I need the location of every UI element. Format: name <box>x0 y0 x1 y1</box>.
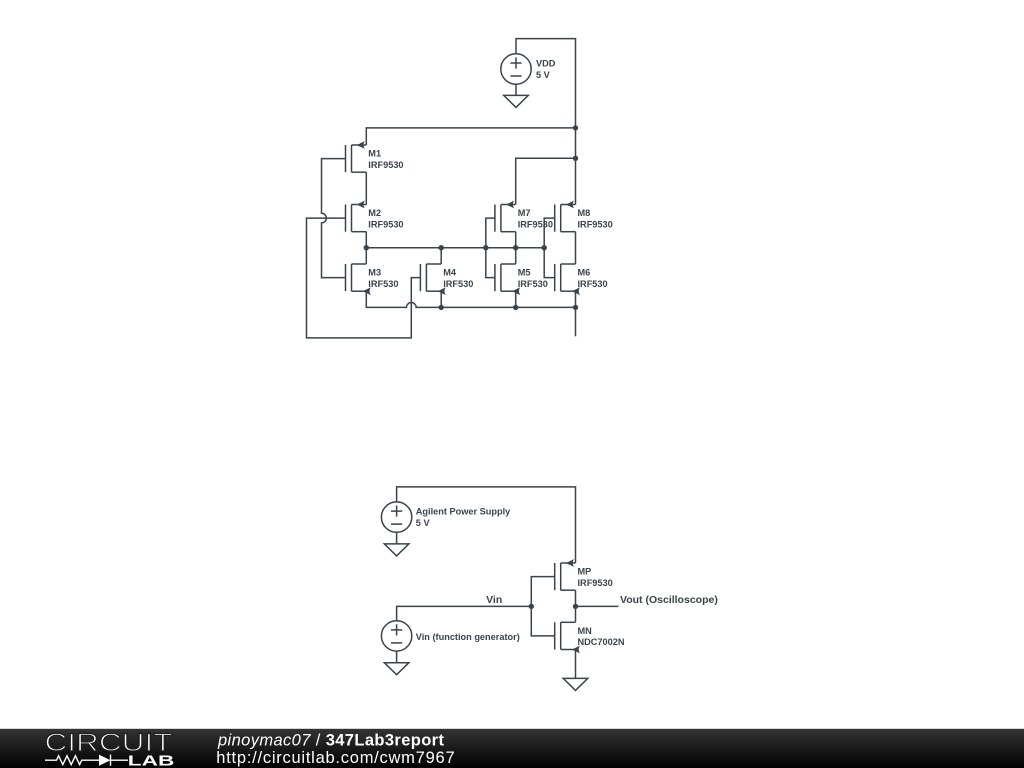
svg-text:Agilent Power Supply: Agilent Power Supply <box>416 507 511 517</box>
wire M2 source to M3 drain <box>365 232 367 264</box>
voltage source VDD <box>501 54 531 96</box>
wire Vout rail <box>576 605 619 607</box>
svg-text:5 V: 5 V <box>416 518 431 528</box>
label M8 IRF9530 <box>578 208 613 229</box>
label M5 IRF530 <box>518 267 548 288</box>
label MN NDC7002N <box>578 626 625 647</box>
label M7 IRF9530 <box>518 208 553 229</box>
svg-text:IRF530: IRF530 <box>578 279 608 289</box>
node junction top rail <box>573 125 578 130</box>
wire M7 M5 gate net <box>486 218 495 278</box>
node mid rail at M7 source <box>513 245 518 250</box>
svg-text:IRF9530: IRF9530 <box>578 219 613 229</box>
svg-text:http://circuitlab.com/cwm7967: http://circuitlab.com/cwm7967 <box>216 749 455 767</box>
label M2 IRF9530 <box>368 208 403 229</box>
svg-text:pinoymac07 / 347Lab3report: pinoymac07 / 347Lab3report <box>217 732 444 750</box>
wire M4 drain lead <box>440 248 442 264</box>
svg-text:Vin: Vin <box>486 594 502 606</box>
svg-text:NDC7002N: NDC7002N <box>578 637 625 647</box>
transistor M1 <box>346 141 367 172</box>
wire M8 source to M6 drain <box>575 232 577 264</box>
wire M1 gate to M3 gate with hop <box>322 159 346 278</box>
wire VDD vertical to M8 drain <box>575 128 577 205</box>
svg-text:M5: M5 <box>518 267 531 277</box>
transistor M2 <box>346 201 367 232</box>
wire Vin rail <box>397 606 532 620</box>
svg-text:5 V: 5 V <box>536 70 551 80</box>
svg-text:IRF9530: IRF9530 <box>518 219 553 229</box>
wire VDD top loop <box>516 39 576 128</box>
label M4 IRF530 <box>443 267 473 288</box>
transistor MP <box>555 559 576 590</box>
node Vin gate junction <box>529 604 534 609</box>
wire M8 M6 gate net <box>544 218 555 278</box>
node mid rail at M8 M6 gate net <box>542 245 547 250</box>
node mid rail at M3 <box>364 245 369 250</box>
transistor M4 <box>420 264 445 295</box>
node bottom rail at M5 <box>513 305 518 310</box>
svg-text:Vin (function generator): Vin (function generator) <box>416 632 520 642</box>
node junction M7 branch <box>573 156 578 161</box>
svg-text:IRF530: IRF530 <box>368 279 398 289</box>
svg-text:IRF9530: IRF9530 <box>368 219 403 229</box>
transistor M8 <box>555 201 576 232</box>
svg-text:IRF530: IRF530 <box>518 279 548 289</box>
svg-text:VDD: VDD <box>536 59 556 69</box>
label M6 IRF530 <box>578 267 608 288</box>
wire bottom rail with hop <box>366 291 575 307</box>
wire M7 drain branch <box>516 158 576 204</box>
wire MP MN gate net <box>531 577 554 636</box>
transistor M6 <box>555 264 580 295</box>
wire lower top loop <box>397 487 576 563</box>
svg-text:M4: M4 <box>443 267 457 277</box>
svg-text:M8: M8 <box>578 208 591 218</box>
wire top rail <box>366 128 575 145</box>
wire M4 source lead <box>440 291 442 307</box>
label VDD 5 V <box>536 59 556 80</box>
transistor M5 <box>495 264 520 295</box>
wire M7 source to M5 drain <box>515 232 517 264</box>
svg-text:IRF530: IRF530 <box>443 279 473 289</box>
label M3 IRF530 <box>368 267 398 288</box>
node bottom rail at M6 <box>573 305 578 310</box>
node bottom rail at M4 <box>439 305 444 310</box>
svg-text:Vout (Oscilloscope): Vout (Oscilloscope) <box>620 594 718 606</box>
ground below MN <box>563 678 588 690</box>
svg-text:M3: M3 <box>368 267 381 277</box>
wire M2 gate to M4 gate <box>307 218 421 338</box>
svg-text:M1: M1 <box>368 149 381 159</box>
voltage source Agilent Power Supply <box>381 502 411 544</box>
logo resistor diode glyph <box>45 755 128 766</box>
node mid rail at M7 M5 gate net <box>483 245 488 250</box>
transistor M3 <box>346 264 371 295</box>
ground below VDD <box>504 95 529 107</box>
wire M5 source lead <box>515 291 517 307</box>
svg-text:M7: M7 <box>518 208 531 218</box>
wire M1 source to M2 drain <box>365 172 367 204</box>
label MP IRF9530 <box>578 567 613 588</box>
wire MN source lead <box>575 650 577 679</box>
wire mid rail <box>366 247 544 249</box>
ground below Vin source <box>384 663 409 675</box>
svg-text:M2: M2 <box>368 208 381 218</box>
node Vout junction <box>573 604 578 609</box>
svg-text:MP: MP <box>578 567 592 577</box>
transistor MN <box>555 622 580 653</box>
svg-text:LAB: LAB <box>128 752 175 768</box>
svg-text:MN: MN <box>578 626 593 636</box>
wire MP drain to MN drain <box>575 590 577 622</box>
transistor M7 <box>495 201 516 232</box>
voltage source Vin function generator <box>381 621 411 663</box>
ground below Agilent supply <box>384 544 409 556</box>
label Agilent Power Supply 5 V <box>416 507 511 528</box>
wire M6 source lead and tail <box>575 291 577 336</box>
svg-text:M6: M6 <box>578 267 591 277</box>
node mid rail at M4 <box>439 245 444 250</box>
label M1 IRF9530 <box>368 149 403 170</box>
svg-text:IRF9530: IRF9530 <box>368 160 403 170</box>
footer bar <box>0 729 1024 768</box>
svg-text:IRF9530: IRF9530 <box>578 578 613 588</box>
